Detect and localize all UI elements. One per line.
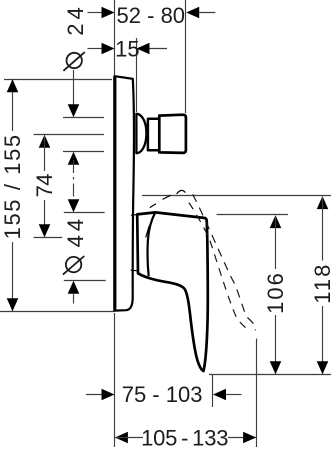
dimension 15 arrow right [137, 43, 150, 55]
svg-text:105 - 133: 105 - 133 [141, 426, 228, 450]
svg-text:52 - 80: 52 - 80 [117, 3, 186, 28]
dimension 74 line top [44, 136, 46, 171]
extension line plate bottom (y=311.7) [0, 311, 115, 313]
handle raised position dashed: inner long edge [189, 203, 246, 329]
dimension 155/155 arrow top [7, 79, 19, 92]
svg-text:44: 44 [63, 215, 88, 247]
svg-text:15: 15 [115, 36, 139, 61]
dimension 15 leader left [88, 48, 104, 50]
dimension D44 dash-dot connector [73, 160, 75, 199]
dimension 155/155 line top [12, 79, 14, 131]
extension line handle top (y=212.6) [64, 212, 105, 214]
dimension D44 label diameter symbol [66, 257, 81, 272]
dimension 105-133 line right [228, 437, 256, 439]
dimension 74 line bottom [44, 200, 46, 237]
dimension 75-103 arrow left [102, 389, 115, 401]
dimension 15 leader right [149, 48, 167, 50]
extension line left vertical top (x=114.7) [114, 0, 116, 75]
dimension 118 arrow bottom [317, 361, 329, 374]
spout body [159, 115, 186, 153]
dimension 75-103 arrow right [213, 389, 226, 401]
extension line sleeve bottom (y=151.5) [63, 151, 104, 153]
handle raised position dashed: top edge rising dash 2 [163, 195, 171, 199]
extension line handle bottom (y=280.6) [64, 280, 106, 282]
wall plate left edge (thick) [113, 76, 116, 312]
dimension 74 arrow top [39, 135, 51, 148]
dimension D44 leader tail [73, 294, 75, 304]
dimension D24 arrow bottom [68, 152, 80, 165]
handle raised position dashed: top corner caret [177, 190, 186, 194]
dimension 105-133 line left [115, 437, 143, 439]
dimension 155/155 arrow bottom [7, 298, 19, 311]
svg-text:155 / 155: 155 / 155 [0, 133, 25, 239]
handle lever neck crease [148, 213, 156, 277]
dimension 118 arrow top [317, 196, 329, 209]
extension line spout center (y=134) [34, 134, 104, 136]
handle lever (solid, down position) [137, 212, 208, 371]
dimension 75-103 leader left [86, 394, 103, 396]
dimension 106 arrow bottom [270, 361, 282, 374]
dimension D24 arrow top [68, 104, 80, 117]
handle raised position dashed: left edge near plate [146, 226, 150, 238]
extension line 74 bottom (y=237.7) [34, 237, 63, 239]
dimension 52-80 leader left [88, 12, 104, 14]
svg-text:106: 106 [263, 271, 288, 314]
svg-text:118: 118 [310, 263, 331, 304]
extension line left vertical bottom [114, 313, 116, 447]
dimension 105-133 arrow left [115, 432, 128, 444]
handle raised position dashed: outer long edge [193, 194, 256, 330]
dimension 52-80 arrow right [186, 7, 199, 19]
dimension 106 line top [275, 217, 277, 270]
dimension 105-133 arrow right [243, 432, 256, 444]
spout escutcheon bump [136, 114, 146, 153]
extension line raised handle top (y=195.2) [142, 195, 331, 197]
svg-text:24: 24 [63, 3, 88, 35]
extension line raised handle right (x=256.1) [256, 339, 258, 448]
dimension 75-103 leader right [226, 394, 242, 396]
extension line spout tip (x=185.6) [185, 0, 187, 113]
dimension 155/155 line bottom [12, 242, 14, 312]
dimension 52-80 leader right [199, 12, 215, 14]
svg-text:74: 74 [32, 174, 57, 198]
extension line 15-right (x=136.4) [136, 38, 138, 112]
handle raised position dashed: top edge rising dash 1 [150, 204, 156, 208]
handle connector top (thin) [131, 214, 137, 217]
handle connector bottom (thin) [131, 269, 138, 272]
dimension 106 arrow top [270, 215, 282, 228]
dimension 118 line bottom [322, 306, 324, 374]
spout collar [148, 119, 159, 151]
extension line handle tip bottom (y=374.4) [209, 374, 331, 376]
dimension 118 line top [322, 197, 324, 261]
wall plate (side view) [115, 76, 134, 310]
extension line plate top (y=79.4) [4, 79, 112, 81]
dimension D44 arrow bottom [68, 281, 80, 294]
extension line solid handle top (y=214.6) [217, 214, 288, 216]
svg-text:75 - 103: 75 - 103 [122, 382, 203, 407]
dimension D44 arrow top [68, 199, 80, 212]
dimension D24 leader [73, 70, 75, 105]
dimension 106 line bottom [275, 315, 277, 374]
dimension D24 label diameter symbol [67, 53, 82, 68]
dimension 74 arrow bottom [39, 224, 51, 237]
dimension 15 arrow left [102, 43, 115, 55]
dimension 52-80 arrow left [102, 7, 115, 19]
extension line sleeve top (y=117.5) [63, 117, 104, 119]
extension line handle tip vertical (x=212.7) [212, 375, 214, 408]
